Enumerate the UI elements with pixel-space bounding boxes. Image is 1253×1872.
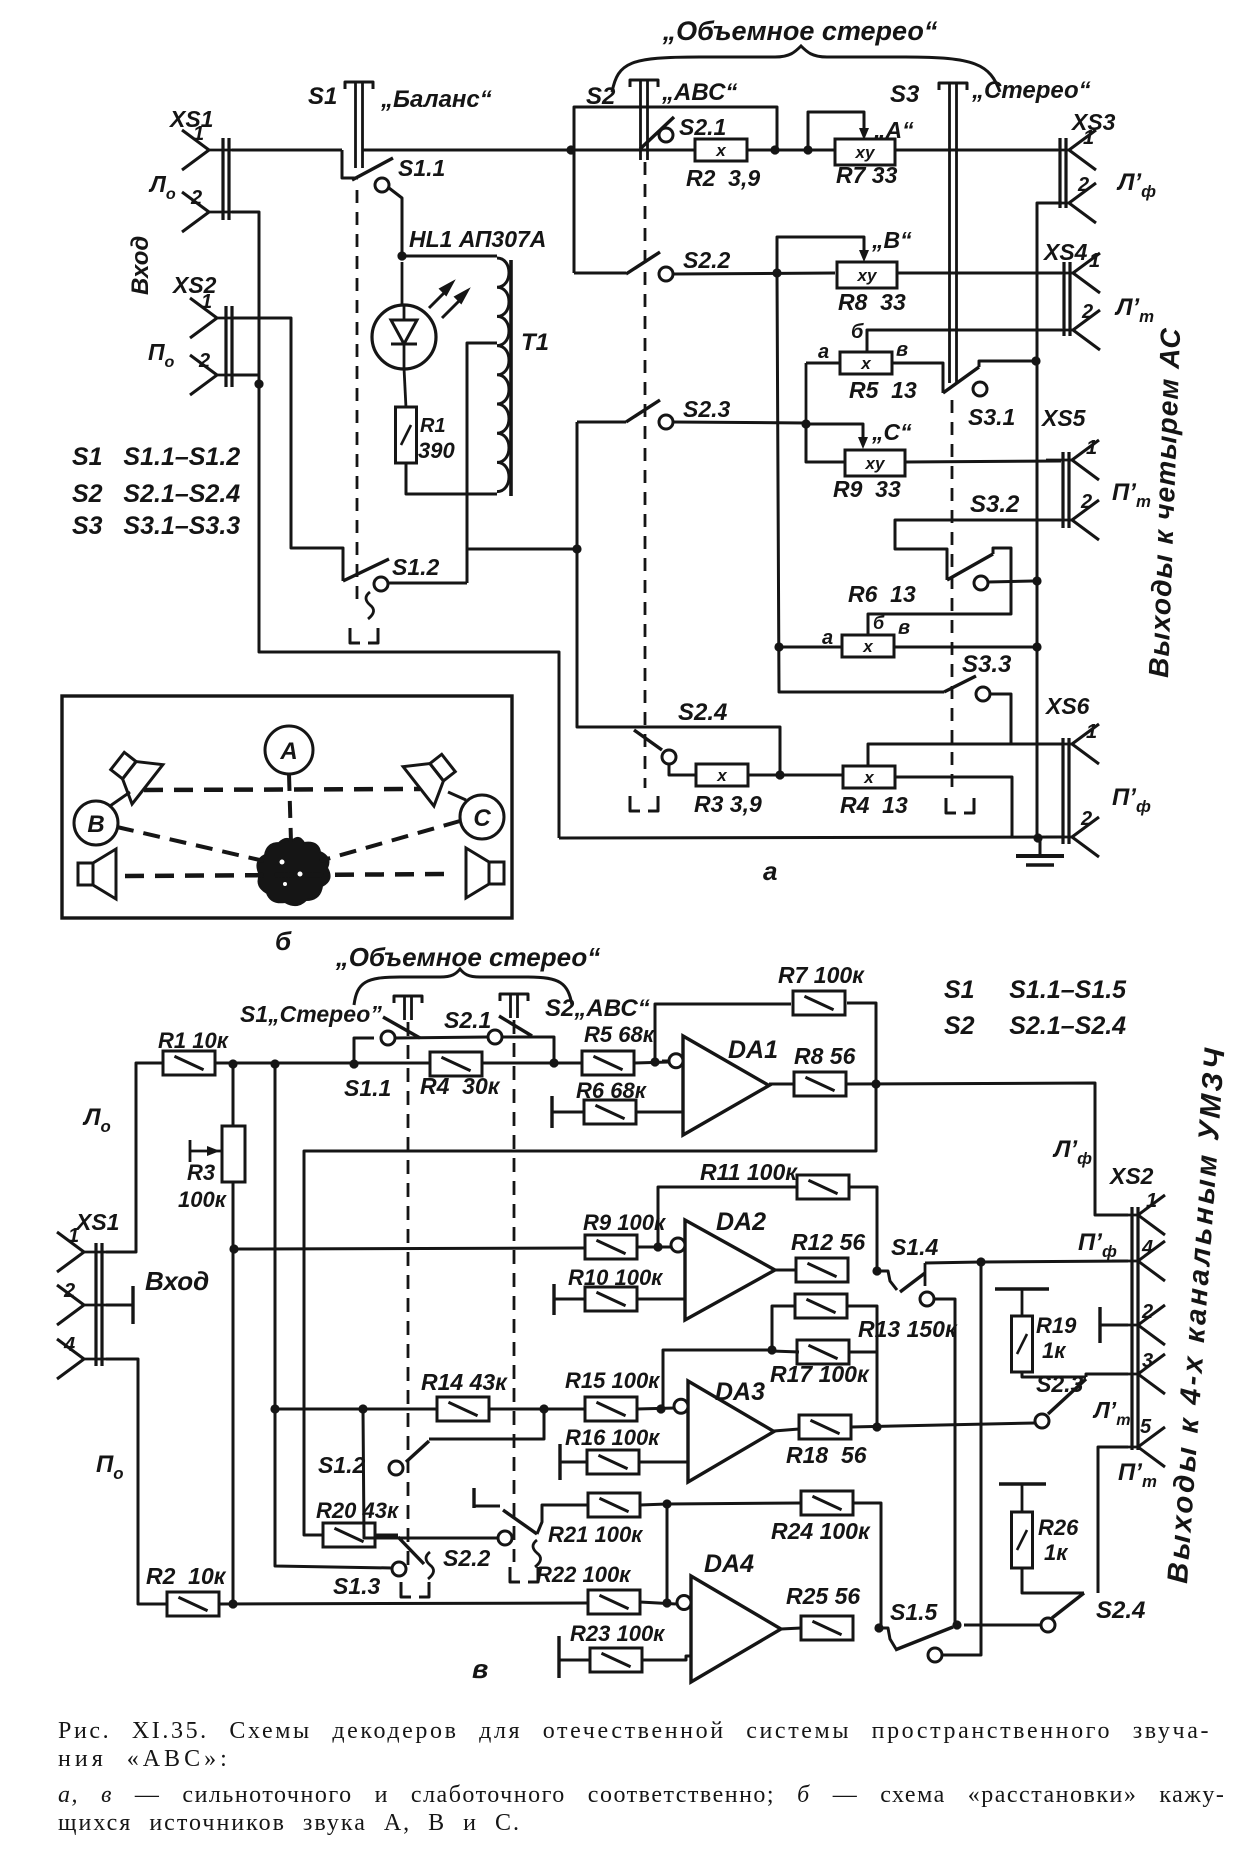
svg-text:xy: xy [857, 266, 878, 285]
junction [254, 379, 263, 388]
svg-text:R20 43к: R20 43к [316, 1498, 400, 1523]
svg-text:R17 100к: R17 100к [770, 1361, 870, 1387]
junction [871, 1079, 880, 1088]
connector XS5 bars [1063, 452, 1069, 528]
svg-text:1: 1 [68, 1225, 79, 1247]
label b schematic [275, 926, 292, 956]
connector XS5 pin 2 [1046, 491, 1099, 540]
net Lo label [148, 171, 176, 203]
svg-text:По: По [96, 1451, 124, 1483]
switch S2.3v contact [1035, 1414, 1049, 1428]
pin2 common bar [106, 1286, 133, 1324]
resistor R16 100k [560, 1425, 661, 1480]
svg-text:R4 13: R4 13 [840, 792, 908, 818]
connector XS2v pin 1 [1112, 1190, 1165, 1235]
net Lo label v [82, 1104, 111, 1136]
svg-text:T1: T1 [521, 329, 549, 356]
switch S2.1v blade [499, 1016, 532, 1036]
net L't v [1092, 1397, 1131, 1429]
svg-text:R24 100к: R24 100к [771, 1518, 871, 1544]
link C to speaker [448, 792, 466, 800]
svg-text:Пʼт: Пʼт [1118, 1459, 1157, 1491]
switch S2.2 contact [659, 267, 673, 281]
resistor R26 1k [999, 1484, 1079, 1568]
wire DA2 out [775, 1269, 796, 1272]
svg-text:DA1: DA1 [728, 1036, 778, 1064]
label outputs AC vertical [1143, 327, 1186, 679]
trimmer arrow A [808, 112, 914, 150]
wire S1.4 tick to pin4 [925, 1261, 1128, 1263]
caption line 1 [58, 1718, 1211, 1745]
dashed top span [144, 789, 420, 790]
svg-text:Выходы к 4-х канальным УМЗЧ: Выходы к 4-х канальным УМЗЧ [1162, 1044, 1232, 1584]
connector XS1 label [168, 106, 213, 132]
wire R2 to R7 [747, 149, 835, 152]
switch S1.5 [879, 1599, 939, 1649]
wire R3 stem [232, 1064, 235, 1126]
caption line 3 [58, 1782, 1225, 1809]
svg-text:„В“: „В“ [871, 227, 912, 253]
resistor R3 3,9 [694, 764, 762, 817]
legend S1 v [944, 976, 1127, 1004]
op-amp DA2 [671, 1208, 775, 1320]
switch S1.2v blade [318, 1441, 429, 1478]
svg-text:XS2: XS2 [1108, 1163, 1154, 1189]
svg-text:x: x [860, 354, 872, 373]
svg-text:R22 100к: R22 100к [536, 1562, 632, 1587]
label Vhod vertical [127, 236, 154, 295]
switch S1.4 contact [920, 1292, 934, 1306]
switch S3.2 blade [947, 491, 1020, 580]
svg-text:2: 2 [1141, 1301, 1153, 1323]
svg-text:S2.4: S2.4 [678, 699, 727, 726]
svg-text:xy: xy [865, 454, 886, 473]
wire R24 left [667, 1503, 801, 1504]
wire R10 to plus [637, 1298, 686, 1301]
label R5 b [851, 321, 864, 343]
label Vhod v [145, 1266, 209, 1296]
svg-text:S2.1: S2.1 [679, 114, 726, 140]
svg-text:„Объемное стерео“: „Объемное стерео“ [335, 942, 601, 972]
wire rail to R2 [571, 149, 695, 152]
pot R3 100k [178, 1126, 245, 1212]
label outputs UMZCH vertical [1162, 1044, 1232, 1584]
svg-text:R11 100к: R11 100к [700, 1159, 798, 1185]
svg-text:Пʼф: Пʼф [1078, 1229, 1117, 1261]
connector XS1v pin 1 [57, 1225, 110, 1272]
wire S2.4 feed [577, 549, 780, 775]
wire S3.1 to bus [979, 361, 1036, 367]
svg-text:в: в [472, 1654, 488, 1684]
wire DA4 out [781, 1628, 801, 1629]
svg-text:DA2: DA2 [716, 1208, 766, 1236]
wire R4v to R5v [482, 1062, 581, 1065]
linkage S2 dashed v [513, 1020, 516, 1562]
switch S2.4v blade [1052, 1593, 1145, 1624]
svg-text:x: x [716, 766, 728, 785]
switch S1.3 blade [333, 1537, 424, 1599]
wire R7 to XS3 [895, 149, 1058, 152]
op-amp DA4 [677, 1550, 781, 1682]
svg-text:XS5: XS5 [1040, 405, 1087, 431]
svg-text:S1: S1 [308, 83, 337, 110]
svg-text:R15 100к: R15 100к [565, 1368, 661, 1393]
wire XS1v.4 down [106, 1359, 168, 1604]
svg-text:S2.1: S2.1 [444, 1007, 491, 1033]
switch S1.1 blade [352, 155, 445, 181]
switch S1.3 staple [401, 1552, 434, 1597]
junction [650, 1057, 659, 1066]
junction [549, 1058, 558, 1067]
resistor R8 56 [794, 1043, 856, 1096]
switch S2.4v contact [1041, 1618, 1055, 1632]
wire R7v right [847, 1003, 876, 1084]
svg-text:2: 2 [1081, 301, 1093, 323]
label HL1 [409, 226, 546, 252]
connector XS3 pin 2 [1043, 174, 1096, 223]
junction [1032, 576, 1041, 585]
switch S2.1v contact [444, 1007, 502, 1044]
svg-text:б: б [275, 926, 292, 956]
svg-text:„С“: „С“ [871, 419, 912, 445]
wire R17 left [772, 1351, 799, 1352]
wire S2.2v feed [363, 1409, 498, 1538]
junction [656, 1404, 665, 1413]
connector XS4 pin 2 [1047, 301, 1100, 350]
svg-text:R16 100к: R16 100к [565, 1425, 661, 1450]
junction [801, 419, 810, 428]
switch S1.1v blade [383, 1017, 420, 1038]
svg-text:R25 56: R25 56 [786, 1583, 860, 1609]
resistor R1 390 [396, 368, 456, 463]
ground [1016, 833, 1064, 865]
net L'f v [1052, 1136, 1092, 1168]
svg-text:S2 S2.1–S2.4: S2 S2.1–S2.4 [944, 1012, 1126, 1040]
svg-text:A: A [279, 738, 297, 765]
net P't label [1112, 479, 1151, 511]
source A circle [265, 726, 313, 774]
resistor R24 100k [771, 1491, 871, 1544]
linkage S2 dashed [630, 162, 658, 811]
svg-text:2: 2 [1080, 808, 1092, 830]
connector XS2v pin 3 [1112, 1350, 1165, 1394]
junction [270, 1059, 279, 1068]
speaker top-left [102, 741, 163, 804]
resistor R14 43k [421, 1369, 508, 1421]
svg-text:2: 2 [198, 350, 210, 372]
svg-text:B: B [87, 811, 104, 838]
svg-text:R21 100к: R21 100к [548, 1522, 644, 1547]
svg-text:1: 1 [1086, 437, 1097, 459]
resistor R18 56 [786, 1415, 867, 1468]
junction [872, 1422, 881, 1431]
wire DA2 rail [235, 1248, 585, 1249]
wire HL1 node to T1 [402, 255, 497, 258]
op-amp DA3 [674, 1378, 774, 1482]
svg-text:R7 33: R7 33 [836, 162, 898, 188]
pin2v common bar [1100, 1307, 1128, 1343]
connector XS1v pin 4 [57, 1334, 110, 1379]
svg-text:Ло: Ло [82, 1104, 111, 1136]
svg-text:R10 100к: R10 100к [568, 1265, 664, 1290]
label R6 b [873, 613, 885, 633]
connector XS2 bars [226, 306, 232, 387]
svg-text:1: 1 [1086, 721, 1097, 743]
resistor R21 100k [548, 1493, 644, 1547]
switch S2.4 contact [662, 750, 676, 764]
feedback R7 v [655, 1004, 791, 1062]
junction [662, 1499, 671, 1508]
wire S1.1 to HL1 [389, 188, 402, 256]
label a schematic [763, 856, 777, 886]
source C circle [460, 795, 504, 839]
svg-text:S2.3: S2.3 [683, 396, 731, 422]
switch S2.4 blade [634, 699, 727, 750]
diagram b frame [62, 696, 512, 918]
net L'f label [1116, 169, 1156, 201]
switch S3.3 blade [944, 651, 1012, 692]
label R6 v [898, 617, 910, 639]
svg-text:XS4: XS4 [1042, 239, 1088, 265]
svg-text:XS1: XS1 [168, 106, 213, 132]
transformer T1 label [521, 329, 549, 356]
wire R13 right [847, 1306, 877, 1427]
svg-text:1к: 1к [1042, 1338, 1067, 1363]
svg-text:R8 56: R8 56 [794, 1043, 856, 1069]
svg-text:R5 13: R5 13 [849, 377, 917, 403]
svg-text:R6 68к: R6 68к [576, 1078, 648, 1103]
wire P't up [1098, 1447, 1128, 1593]
svg-text:Ло: Ло [148, 171, 176, 203]
svg-text:DA4: DA4 [704, 1550, 754, 1578]
connector XS1v bars [96, 1243, 102, 1366]
connector XS6 bars [1063, 738, 1069, 844]
svg-text:S2.3: S2.3 [1036, 1371, 1084, 1397]
svg-text:S1.5: S1.5 [890, 1599, 939, 1625]
svg-text:Пʼт: Пʼт [1112, 479, 1151, 511]
net Po label v [96, 1451, 124, 1483]
connector XS1 pin 2 [182, 187, 235, 232]
svg-text:x: x [863, 768, 875, 787]
legend S1 [72, 443, 240, 471]
junction [662, 1598, 671, 1607]
svg-text:R3 3,9: R3 3,9 [694, 791, 762, 817]
wire S1.4 contact down [934, 1299, 955, 1625]
svg-text:„Стерео“: „Стерео“ [971, 77, 1091, 104]
switch S2.2v [443, 1488, 500, 1571]
svg-text:S1.2: S1.2 [318, 1452, 366, 1478]
wire R20 right [375, 1534, 398, 1537]
resistor R6 13 [842, 635, 894, 657]
svg-text:XS6: XS6 [1044, 693, 1090, 719]
wire R14 to R15 [489, 1408, 585, 1411]
junction [874, 1623, 883, 1632]
linkage S1 dashed v [407, 1022, 410, 1572]
wire R13/R17 common [663, 1350, 772, 1409]
wire XS1.2 down-left [232, 212, 559, 838]
label R5 a [818, 341, 829, 363]
wire S1.5 to S2.4 [964, 1624, 1041, 1627]
wire S2.3 net down [576, 422, 579, 549]
resistor R9 33 [833, 450, 905, 502]
svg-text:а: а [818, 341, 829, 363]
svg-text:S2.2: S2.2 [683, 247, 731, 273]
junction [767, 1345, 776, 1354]
connector XS3 pin 1 [1043, 127, 1096, 170]
junction [349, 1059, 358, 1068]
legend S3 [72, 512, 240, 540]
legend S2 [72, 480, 240, 508]
svg-text:в: в [898, 617, 910, 639]
connector XS2 pin 2 [190, 350, 243, 395]
svg-text:S1„Стерео”: S1„Стерео” [240, 1001, 382, 1027]
wire DA1 out [769, 1083, 794, 1086]
svg-text:R19: R19 [1036, 1313, 1077, 1338]
feedback R11 [658, 1187, 797, 1247]
svg-text:1: 1 [1146, 1190, 1157, 1212]
wire rail right of S1.1 [363, 149, 571, 152]
junction [228, 1059, 237, 1068]
wire S2.3 to R5/R9 [673, 422, 806, 423]
resistor R2 10k v [146, 1563, 227, 1616]
listener blob [257, 838, 329, 905]
switch S2.3v [1036, 1371, 1084, 1397]
svg-text:R14 43к: R14 43к [421, 1369, 508, 1395]
resistor R12 56 [791, 1229, 865, 1282]
wire R24 right [853, 1503, 881, 1629]
svg-text:S1.1: S1.1 [344, 1075, 391, 1101]
svg-text:1к: 1к [1044, 1540, 1069, 1565]
switch S2.3v blade [1048, 1379, 1086, 1414]
wire R9 feed [806, 424, 845, 462]
switch S2.2 blade [626, 247, 731, 274]
svg-text:R2 3,9: R2 3,9 [686, 165, 760, 191]
switch S2.2v staple [510, 1540, 541, 1582]
resistor R10 100k [554, 1265, 664, 1315]
speaker top-right [403, 743, 464, 806]
dashed B to listener [117, 827, 264, 861]
wire R3 to Prail [232, 1249, 235, 1604]
wire S1.5 contact right [942, 1654, 948, 1657]
wire DA3 rail [275, 1408, 437, 1411]
dashed A to listener [289, 774, 291, 842]
wire R15 to DA3 [637, 1408, 675, 1409]
wire Lo rail [215, 1062, 432, 1065]
switch S2.3 contact [659, 415, 673, 429]
switch S2.3 blade [626, 396, 731, 422]
svg-text:S1.1: S1.1 [398, 155, 445, 181]
junction [572, 544, 581, 553]
svg-text:R4 30к: R4 30к [420, 1073, 501, 1099]
connector XS1 bars [223, 138, 229, 220]
connector XS6 pin 2 [1046, 808, 1099, 857]
switch S1.3 contact [392, 1562, 406, 1576]
switch S2.2v blade [503, 1510, 537, 1534]
resistor R7 100k v [778, 962, 865, 1015]
connector XS1v label [74, 1209, 119, 1235]
svg-text:S3.2: S3.2 [970, 491, 1020, 518]
connector XS2v pin 4 [1112, 1237, 1165, 1281]
resistor R20 43k [316, 1498, 400, 1547]
junction [774, 642, 783, 651]
wire DA1 cross-feed [304, 1084, 876, 1535]
resistor R7 33 [835, 139, 898, 188]
svg-text:R1: R1 [420, 415, 446, 437]
switch S3.1 blade [943, 367, 1015, 430]
svg-text:S1.3: S1.3 [333, 1573, 381, 1599]
switch S1.5 blade [895, 1627, 953, 1650]
svg-text:x: x [862, 637, 874, 656]
label R6 a [822, 627, 833, 649]
switch S1.1v contact [381, 1031, 395, 1045]
speaker bottom-right [466, 848, 504, 898]
switch S3.1 contact [973, 382, 987, 396]
connector XS2 bars v [1132, 1207, 1138, 1450]
wire S2.2 to R8 [673, 273, 835, 274]
svg-text:S3.1: S3.1 [968, 404, 1015, 430]
wire XS3.2 bus [1037, 203, 1062, 837]
resistor R17 100k [770, 1340, 870, 1387]
svg-text:1: 1 [1083, 127, 1094, 149]
wire DA3 out [774, 1429, 799, 1431]
wire R4 right [894, 777, 1012, 836]
label v schematic [472, 1654, 488, 1684]
speaker bottom-left [78, 849, 116, 899]
switch S2 button [586, 79, 737, 160]
junction [229, 1244, 238, 1253]
resistor R23 100k [559, 1621, 666, 1678]
resistor R8 33 [837, 262, 906, 315]
junction [539, 1404, 548, 1413]
svg-text:390: 390 [418, 438, 455, 463]
switch S1 button [308, 82, 492, 168]
source B circle [74, 801, 118, 845]
connector XS5 label [1040, 405, 1087, 431]
connector XS4 pin 1 [1047, 250, 1100, 293]
wire R5 a-lead [806, 363, 840, 424]
wire to S2.2 [574, 272, 626, 275]
switch S1.2v contact [389, 1461, 403, 1475]
svg-text:1: 1 [193, 123, 204, 145]
junction [952, 1620, 961, 1629]
connector XS3 bars [1060, 138, 1066, 208]
svg-text:2: 2 [190, 187, 202, 209]
resistor R2 3,9 [686, 139, 760, 191]
switch S2.2v contact [498, 1531, 512, 1545]
svg-text:„Баланс“: „Баланс“ [380, 86, 492, 113]
wire S3.2 contact to bus [988, 581, 1033, 582]
svg-text:Пʼф: Пʼф [1112, 784, 1151, 816]
switch S1.4 [877, 1234, 939, 1290]
wire S2.1v drop [502, 1037, 554, 1063]
linkage S1 dashed [350, 190, 378, 643]
junction [358, 1404, 367, 1413]
svg-text:Лʼф: Лʼф [1052, 1136, 1092, 1168]
svg-text:S3.3: S3.3 [962, 651, 1012, 678]
wire R5 v-lead [892, 363, 943, 393]
legend S2 v [944, 1012, 1126, 1040]
resistor R25 56 [786, 1583, 860, 1640]
wire XS1v.1 up [106, 1063, 163, 1252]
net L't label [1114, 294, 1154, 326]
wire R4 top to XS6.1 [845, 744, 1062, 775]
connector XS6 pin 1 [1046, 721, 1099, 764]
junction [566, 145, 575, 154]
wire rail notch [342, 150, 358, 178]
linkage S3 dashed [946, 400, 974, 813]
svg-text:Лʼф: Лʼф [1116, 169, 1156, 201]
switch S2 button v [500, 994, 650, 1022]
